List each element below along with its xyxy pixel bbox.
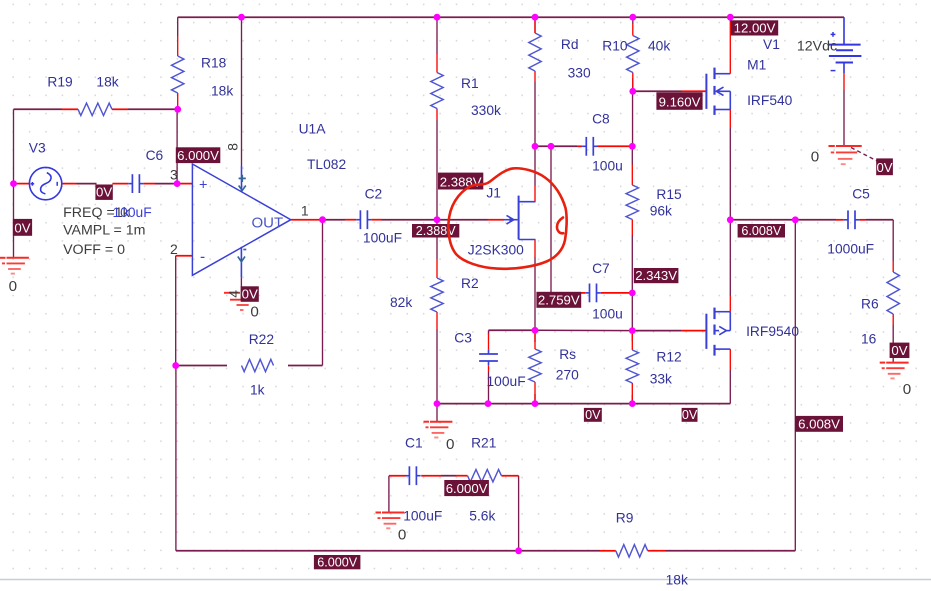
resistor R10 bbox=[627, 36, 639, 73]
attr VOFF bbox=[63, 242, 125, 258]
ground (op-amp pin 4) bbox=[224, 293, 253, 310]
svg-text:100uF: 100uF bbox=[487, 374, 526, 389]
capacitor C4 in R21 branch bbox=[405, 466, 420, 485]
value 5.6k (R21) bbox=[469, 509, 495, 524]
svg-text:C7: C7 bbox=[592, 261, 610, 276]
pin stub C2 bbox=[345, 219, 382, 221]
pin stub Q2 gate bbox=[681, 330, 706, 332]
label C3 bbox=[454, 330, 472, 345]
pin stub M1 source bbox=[729, 110, 731, 129]
junction node 12 bbox=[548, 143, 555, 150]
pin number 3 bbox=[170, 167, 178, 183]
svg-text:VOFF = 0: VOFF = 0 bbox=[63, 242, 125, 258]
label C7 bbox=[592, 261, 610, 276]
svg-text:0: 0 bbox=[250, 304, 258, 321]
ground (R21 branch cap) bbox=[376, 513, 405, 529]
label R18 bbox=[201, 56, 227, 71]
svg-text:0: 0 bbox=[903, 381, 911, 398]
voltage label 2.388V (C2) bbox=[412, 224, 459, 238]
capacitor C5 bbox=[844, 210, 859, 229]
svg-text:V3: V3 bbox=[29, 140, 46, 155]
label V3 bbox=[29, 140, 46, 155]
label R22 bbox=[249, 332, 274, 347]
svg-text:3: 3 bbox=[170, 167, 178, 183]
value J2SK300 bbox=[468, 242, 524, 257]
wire C8 row bbox=[535, 145, 577, 147]
wire left input branch vertical bbox=[13, 109, 15, 257]
pin stub op-amp output bbox=[291, 219, 323, 221]
wire C7 drop vertical bbox=[550, 146, 552, 293]
value 18k (R9) bbox=[666, 573, 688, 588]
pin number 1 bbox=[301, 202, 309, 218]
wire Q2 drain up bbox=[729, 220, 731, 296]
voltage label 2.343V bbox=[634, 268, 679, 283]
wire output row bbox=[730, 219, 836, 221]
value 100uF (R21 branch cap) bbox=[403, 509, 442, 524]
wire feedback vertical bbox=[322, 220, 324, 366]
pin stub Q2 source bbox=[729, 349, 731, 370]
label IRF9540 bbox=[746, 324, 799, 339]
pin stub R12 bbox=[631, 334, 633, 404]
svg-text:33k: 33k bbox=[650, 372, 672, 387]
value 12Vdc bbox=[797, 38, 837, 54]
label C2 bbox=[365, 186, 383, 201]
voltage label 0V (R6 ground) bbox=[890, 343, 910, 358]
label U1A bbox=[299, 122, 327, 137]
wire R12 column bbox=[631, 331, 633, 404]
resistor R2 bbox=[431, 278, 443, 312]
svg-text:2.343V: 2.343V bbox=[635, 268, 677, 283]
svg-text:100u: 100u bbox=[592, 159, 623, 174]
voltage label 0V (gnd bus 2) bbox=[682, 408, 698, 422]
pin stub J1 gate bbox=[488, 219, 505, 221]
voltage label 0V (pin4) bbox=[241, 286, 259, 302]
junction node 15 bbox=[629, 290, 636, 297]
svg-text:0V: 0V bbox=[96, 185, 112, 200]
wire Q2 source to ground bus bbox=[729, 370, 731, 404]
svg-text:18k: 18k bbox=[211, 84, 233, 99]
resistor R1 bbox=[431, 73, 443, 109]
wire Rs column bbox=[534, 330, 536, 403]
wire R21 cap to ground bbox=[388, 476, 390, 513]
resistor R6 bbox=[887, 272, 899, 314]
label R2 bbox=[461, 276, 479, 291]
svg-text:R22: R22 bbox=[249, 332, 274, 347]
svg-text:C8: C8 bbox=[592, 111, 610, 126]
value 270 (Rs) bbox=[556, 368, 579, 383]
label R15 bbox=[656, 187, 682, 202]
transistor Q2 (MOSFET IRF9540) bbox=[706, 308, 730, 356]
wire R2 column bbox=[436, 220, 438, 404]
junction node 2 bbox=[434, 14, 441, 21]
capacitor C3 bbox=[479, 350, 498, 365]
wire right output vertical bbox=[794, 220, 796, 551]
svg-text:VAMPL = 1m: VAMPL = 1m bbox=[63, 223, 145, 239]
svg-text:IRF540: IRF540 bbox=[747, 93, 793, 108]
wire R15 to gate node bbox=[631, 293, 633, 331]
wire top supply bus bbox=[178, 16, 844, 18]
wire J1 gate bbox=[437, 219, 488, 221]
svg-text:R15: R15 bbox=[656, 187, 682, 202]
svg-text:12.00V: 12.00V bbox=[734, 20, 776, 35]
value 330k (R1) bbox=[471, 103, 501, 118]
junction node 7 bbox=[10, 180, 17, 187]
wire C2 to R1 node bbox=[382, 219, 438, 221]
junction node 14 bbox=[629, 88, 636, 95]
voltage label 9.160V bbox=[656, 92, 702, 110]
voltage label 12.00V bbox=[731, 20, 778, 35]
transistor M1 (MOSFET IRF540) bbox=[706, 68, 730, 115]
label 0 (R6 ground) bbox=[903, 381, 911, 398]
svg-text:96k: 96k bbox=[650, 203, 672, 218]
wire C1 ground stub bbox=[436, 404, 438, 422]
wire R10 node to C8 node bbox=[632, 91, 634, 146]
value 100u (C7) bbox=[592, 307, 623, 322]
pin stub J1 drain bbox=[534, 186, 536, 202]
voltage label 6.008V (right) bbox=[795, 416, 843, 432]
label C1 bbox=[405, 435, 423, 450]
svg-text:C2: C2 bbox=[365, 186, 383, 201]
wire J1 drain up bbox=[534, 146, 536, 186]
svg-text:100uF: 100uF bbox=[113, 205, 152, 220]
value 18k (R18) bbox=[211, 84, 233, 99]
value 100uF (C2) bbox=[363, 231, 402, 246]
resistor R12 bbox=[626, 350, 638, 383]
pin stub C8 bbox=[577, 145, 632, 147]
value 100uF (C3) bbox=[487, 374, 526, 389]
voltage label 6.000V (bottom) bbox=[314, 555, 361, 570]
wire M1 gate row bbox=[633, 90, 682, 92]
junction node 10 bbox=[434, 216, 441, 223]
pin stub R19 bbox=[62, 108, 128, 110]
value 100uF (C6) bbox=[113, 205, 152, 220]
label R21 bbox=[471, 435, 496, 450]
wire source node row bbox=[535, 329, 632, 331]
voltage label 6.000V (R21) bbox=[444, 480, 489, 496]
svg-text:Rs: Rs bbox=[559, 347, 576, 362]
svg-text:R21: R21 bbox=[471, 435, 496, 450]
wire Q2 gate row bbox=[632, 330, 681, 332]
resistor R15 bbox=[626, 185, 638, 220]
svg-text:16: 16 bbox=[861, 332, 877, 347]
svg-text:U1A: U1A bbox=[299, 122, 327, 137]
pin stub R1 bbox=[436, 54, 438, 120]
attr VAMPL bbox=[63, 223, 145, 239]
wire M1 source down bbox=[729, 128, 731, 220]
junction node 9 bbox=[319, 216, 326, 223]
svg-text:M1: M1 bbox=[747, 57, 766, 72]
pin number 8 bbox=[225, 143, 241, 151]
junction node 16 bbox=[532, 327, 539, 334]
svg-text:1000uF: 1000uF bbox=[827, 241, 874, 256]
label R1 bbox=[461, 76, 479, 91]
svg-text:0V: 0V bbox=[682, 408, 698, 422]
junction node 13 bbox=[629, 143, 636, 150]
label C5 bbox=[852, 186, 870, 201]
svg-text:0V: 0V bbox=[876, 160, 892, 175]
capacitor C8 bbox=[582, 137, 597, 156]
pin stub R10 bbox=[632, 24, 634, 91]
op-amp U1A output label bbox=[252, 215, 284, 232]
pin stub R18 bbox=[177, 36, 179, 109]
value 1000uF (C5) bbox=[827, 241, 874, 256]
svg-text:C1: C1 bbox=[405, 435, 423, 450]
label C6 bbox=[146, 148, 164, 163]
wire ground bus bbox=[437, 403, 730, 405]
junction node 19 bbox=[792, 216, 799, 223]
label 0 (battery ground) bbox=[811, 148, 819, 165]
svg-text:0V: 0V bbox=[14, 221, 30, 236]
pin stub M1 gate bbox=[682, 90, 707, 92]
pin stub R2 bbox=[436, 259, 438, 329]
junction node 3 bbox=[532, 14, 539, 21]
wire M1 drain stub up bbox=[729, 17, 731, 22]
svg-text:C3: C3 bbox=[454, 330, 472, 345]
voltage label 6.008V (output) bbox=[738, 224, 785, 238]
label M1 bbox=[747, 57, 766, 72]
svg-text:100u: 100u bbox=[592, 307, 623, 322]
voltage source V3 (sine) bbox=[29, 167, 61, 199]
junction node 5 bbox=[727, 14, 734, 21]
svg-text:TL082: TL082 bbox=[307, 157, 346, 172]
svg-text:0: 0 bbox=[398, 527, 406, 544]
junction node 8 bbox=[174, 180, 181, 187]
wire C7 row bbox=[551, 292, 578, 294]
pin stub J1 source bbox=[534, 240, 536, 258]
label R9 bbox=[616, 511, 634, 526]
attr FREQ bbox=[63, 205, 131, 221]
annotation red circle around J1 bbox=[448, 168, 566, 269]
capacitor C6 bbox=[128, 174, 143, 193]
pin stub R15 bbox=[631, 165, 633, 236]
wire feedback row R22 bbox=[176, 365, 323, 367]
svg-text:J2SK300: J2SK300 bbox=[468, 242, 524, 257]
junction node 20 bbox=[172, 362, 179, 369]
svg-text:2.759V: 2.759V bbox=[538, 293, 580, 308]
svg-text:2: 2 bbox=[170, 241, 178, 257]
ground (V1 battery) bbox=[828, 146, 861, 164]
svg-text:9.160V: 9.160V bbox=[659, 95, 701, 110]
pin number 2 bbox=[170, 241, 178, 257]
junction node 22 bbox=[485, 400, 492, 407]
value 100u (C8) bbox=[592, 159, 623, 174]
resistor R21 bbox=[468, 470, 502, 482]
junction node 24 bbox=[629, 400, 636, 407]
svg-text:6.008V: 6.008V bbox=[798, 417, 840, 432]
junction node 17 bbox=[629, 327, 636, 334]
resistor R22 bbox=[242, 359, 274, 371]
voltage label 2.388V (gate) bbox=[438, 173, 483, 190]
svg-text:-: - bbox=[200, 249, 205, 266]
wire op-amp pin4 to ground bbox=[240, 277, 242, 287]
op-amp U1A bbox=[192, 164, 290, 277]
svg-text:OUT: OUT bbox=[252, 215, 284, 232]
svg-text:0: 0 bbox=[9, 278, 17, 295]
capacitor C2 bbox=[356, 210, 371, 229]
svg-text:6.008V: 6.008V bbox=[741, 224, 782, 238]
svg-text:330: 330 bbox=[568, 66, 591, 81]
dashed lead to 0V (battery ground) bbox=[851, 148, 878, 162]
voltage label 0V (V3) bbox=[95, 185, 112, 200]
label R6 bbox=[861, 296, 879, 311]
pin number 4 bbox=[225, 290, 241, 298]
wire left bottom vertical bbox=[175, 366, 177, 551]
voltage label 0V (gnd bus 1) bbox=[584, 408, 602, 422]
svg-text:5.6k: 5.6k bbox=[469, 509, 495, 524]
svg-text:R2: R2 bbox=[461, 276, 479, 291]
junction node 6 bbox=[174, 106, 181, 113]
junction node 21 bbox=[434, 400, 441, 407]
svg-text:C5: C5 bbox=[852, 186, 870, 201]
label Rs bbox=[559, 347, 576, 362]
svg-text:82k: 82k bbox=[390, 295, 412, 310]
svg-text:8: 8 bbox=[225, 143, 241, 151]
svg-text:18k: 18k bbox=[666, 573, 688, 588]
wire C3 branch bbox=[489, 330, 536, 403]
pin stub Q2 drain bbox=[729, 296, 731, 312]
wire J1 source down bbox=[534, 257, 536, 330]
voltage label 2.759V bbox=[536, 292, 581, 308]
pin stub C6 bbox=[112, 183, 155, 185]
value 1k (R22) bbox=[250, 383, 265, 398]
label R19 bbox=[47, 74, 73, 89]
wire R1 column bbox=[436, 17, 438, 220]
svg-text:100uF: 100uF bbox=[403, 509, 442, 524]
svg-text:0V: 0V bbox=[891, 343, 907, 358]
capacitor C7 bbox=[585, 284, 600, 303]
value 82k (R2) bbox=[390, 295, 412, 310]
svg-text:330k: 330k bbox=[471, 103, 501, 118]
pin stub M1 drain bbox=[729, 22, 731, 74]
voltage label 6.000V (pin3) bbox=[176, 147, 221, 163]
svg-text:2.388V: 2.388V bbox=[440, 174, 482, 189]
wire C5 to R6 corner bbox=[866, 220, 893, 261]
svg-text:0V: 0V bbox=[585, 408, 601, 422]
pin stub V3 bbox=[14, 183, 77, 185]
svg-text:C6: C6 bbox=[146, 148, 164, 163]
label J1 bbox=[486, 186, 501, 201]
svg-text:6.000V: 6.000V bbox=[177, 148, 219, 163]
label R10 bbox=[602, 39, 628, 54]
svg-text:1k: 1k bbox=[250, 383, 265, 398]
svg-text:V1: V1 bbox=[763, 37, 780, 52]
wire R18 bottom to pin3 node bbox=[176, 109, 178, 183]
wire op-amp V+ pin to top bus bbox=[241, 17, 243, 166]
wire R10 column bbox=[632, 17, 634, 91]
label V1 bbox=[763, 37, 780, 52]
junction node 11 bbox=[532, 143, 539, 150]
junction node 23 bbox=[532, 400, 539, 407]
pin stub R6 bbox=[892, 261, 894, 325]
wire R21 branch row bbox=[441, 475, 456, 477]
svg-text:R10: R10 bbox=[602, 39, 628, 54]
svg-text:R18: R18 bbox=[201, 56, 227, 71]
svg-text:1: 1 bbox=[301, 202, 309, 218]
wire R6 to ground bbox=[892, 325, 894, 362]
wire R19 row bbox=[14, 108, 178, 110]
wire R21 branch vertical bbox=[518, 476, 520, 551]
wire bottom bus bbox=[176, 550, 795, 552]
svg-text:Rd: Rd bbox=[561, 37, 579, 52]
junction node 25 bbox=[515, 547, 522, 554]
svg-text:J1: J1 bbox=[486, 186, 501, 201]
label 0 (R21 ground) bbox=[398, 527, 406, 544]
label R12 bbox=[656, 350, 681, 365]
ground (C1 / bottom of R2) bbox=[424, 422, 453, 438]
svg-text:+: + bbox=[199, 178, 207, 194]
svg-text:18k: 18k bbox=[96, 74, 118, 89]
pin stub Rs bbox=[534, 334, 536, 404]
svg-text:R9: R9 bbox=[616, 511, 634, 526]
svg-text:270: 270 bbox=[556, 368, 579, 383]
resistor R18 bbox=[172, 56, 184, 93]
wire R18 top stub bbox=[177, 17, 179, 36]
ground (R6) bbox=[880, 363, 909, 379]
wire output node to C2 bbox=[323, 219, 346, 221]
svg-text:0: 0 bbox=[446, 436, 454, 453]
svg-text:6.000V: 6.000V bbox=[446, 481, 488, 496]
label 0 (input ground) bbox=[9, 278, 17, 295]
pin stub C4 bbox=[389, 475, 441, 477]
transistor J1 (JFET J2SK300) bbox=[504, 196, 536, 240]
wire V3 to C6 bbox=[77, 183, 178, 185]
value 330 (Rd) bbox=[568, 66, 591, 81]
svg-text:R19: R19 bbox=[47, 74, 73, 89]
pin stub R21 bbox=[456, 475, 519, 477]
svg-text:12Vdc: 12Vdc bbox=[797, 38, 837, 54]
value 18k (R19) bbox=[96, 74, 118, 89]
svg-text:40k: 40k bbox=[648, 39, 670, 54]
pin stub Rd bbox=[534, 17, 536, 82]
value TL082 bbox=[307, 157, 346, 172]
resistor R9 bbox=[616, 545, 648, 557]
value 40k (R10) bbox=[648, 39, 670, 54]
wire Rd column bbox=[534, 17, 536, 146]
pin stub op-amp inputs bbox=[176, 184, 193, 256]
resistor Rs bbox=[529, 349, 541, 382]
svg-text:6.000V: 6.000V bbox=[317, 556, 358, 570]
pin stub C5 bbox=[836, 219, 866, 221]
pin stub C7 bbox=[578, 292, 632, 294]
pin stub R9 bbox=[600, 550, 666, 552]
label 0 (C1 ground) bbox=[446, 436, 454, 453]
value 96k (R15) bbox=[650, 203, 672, 218]
pin stub C3 bbox=[488, 334, 490, 373]
resistor Rd bbox=[529, 33, 541, 71]
value 16 (R6) bbox=[861, 332, 877, 347]
value 33k (R12) bbox=[650, 372, 672, 387]
voltage label 0V (battery ground) bbox=[876, 158, 893, 175]
svg-text:100uF: 100uF bbox=[363, 231, 402, 246]
svg-text:R1: R1 bbox=[461, 76, 479, 91]
pin stub V1 battery bbox=[843, 73, 845, 90]
wire R15 column bbox=[631, 146, 633, 293]
svg-text:4: 4 bbox=[225, 290, 241, 298]
junction node 18 bbox=[727, 216, 734, 223]
svg-text:0V: 0V bbox=[242, 287, 258, 302]
wire inverting input vertical bbox=[175, 256, 177, 366]
svg-text:IRF9540: IRF9540 bbox=[746, 324, 799, 339]
svg-text:R12: R12 bbox=[656, 350, 681, 365]
wire V1 battery to ground bbox=[843, 90, 845, 146]
junction node 4 bbox=[629, 14, 636, 21]
label Rd bbox=[561, 37, 579, 52]
value IRF540 bbox=[747, 93, 793, 108]
label 0 (pin4 ground) bbox=[250, 304, 258, 321]
svg-text:0: 0 bbox=[811, 148, 819, 165]
resistor R19 bbox=[78, 103, 112, 115]
voltage label 0V (input ground) bbox=[13, 219, 32, 236]
